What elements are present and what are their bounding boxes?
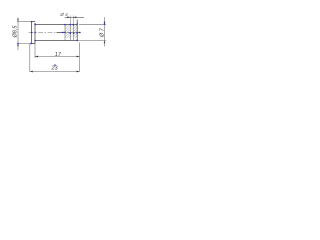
middle bottom dimension 17 [35, 43, 80, 72]
darker centre dash across section [68, 31, 80, 33]
body outline [35, 20, 77, 41]
cross hole edges (also extension lines for Ø4) [70, 16, 73, 25]
overall bottom dimension 23 [30, 44, 80, 72]
break line of partial section [64, 25, 66, 41]
svg-text:Ø 7: Ø 7 [100, 27, 106, 38]
svg-text:Ø 4: Ø 4 [59, 12, 68, 17]
svg-text:17: 17 [55, 52, 62, 58]
blue junction dots [17, 21, 105, 66]
centre line [29, 31, 82, 33]
right dimension [77, 17, 106, 47]
hatching right of cross hole [73, 25, 77, 38]
hatching left of cross hole [65, 25, 70, 39]
dimension Ø4 line [65, 16, 84, 18]
flange (head) outline [32, 22, 36, 44]
faint hatch inside hole band [70, 25, 73, 37]
svg-text:23: 23 [51, 65, 59, 71]
left dimension (flange Ø) [17, 18, 35, 51]
svg-text:Ø8,5: Ø8,5 [13, 25, 19, 39]
